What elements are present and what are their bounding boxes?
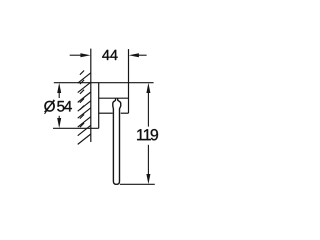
wall face line (90, 49, 92, 142)
diameter symbol slash stroke (45, 100, 55, 114)
dimension 44 leader lines (70, 54, 147, 56)
holder bottom edge right part (121, 112, 129, 114)
holder body inner edge (99, 97, 129, 99)
holder front edge / extension line (128, 49, 130, 113)
diameter symbol Ø (44, 101, 55, 112)
dimension value 54 (57, 101, 72, 112)
dimension Ø 54 arrowheads (57, 83, 61, 128)
bottom extension line (120, 183, 155, 185)
wall section hatching (78, 71, 91, 145)
paper roll wire loop (side view) (113, 98, 121, 184)
dimension value 44 (102, 50, 117, 60)
dimension value 119 (137, 129, 158, 140)
rosette bottom edge with extension line (53, 127, 99, 129)
dimension 44 arrowheads (80, 53, 138, 57)
dimension 119 arrowheads (146, 83, 150, 184)
dimension Ø 54 leader lines (58, 92, 60, 119)
dimension 119 leader lines (147, 92, 149, 175)
holder bottom edge left part (99, 112, 113, 114)
rosette front edge (98, 83, 100, 129)
holder top edge with extension lines (54, 82, 154, 84)
